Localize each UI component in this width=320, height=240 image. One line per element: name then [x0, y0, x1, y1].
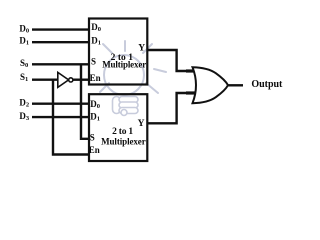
wire S0	[32, 63, 89, 65]
svg-text:S0: S0	[20, 58, 28, 69]
svg-text:S1: S1	[20, 72, 28, 83]
watermark lightbulb	[100, 41, 166, 116]
wire D1	[32, 41, 89, 43]
inverter on S1	[58, 72, 73, 87]
wire S1 branch to bottom En	[53, 80, 89, 155]
svg-text:S: S	[90, 133, 95, 143]
svg-text:Y: Y	[138, 119, 145, 129]
wire D0	[32, 28, 89, 30]
wire S1 to inverter	[32, 78, 58, 80]
wire inverter output to top En	[73, 78, 89, 80]
svg-text:D1: D1	[90, 111, 100, 122]
svg-text:S: S	[91, 56, 96, 66]
wire Y U1 to OR input A	[148, 50, 187, 71]
wire OR output	[228, 84, 243, 86]
svg-text:En: En	[90, 73, 101, 83]
svg-text:D0: D0	[19, 24, 29, 35]
svg-text:D0: D0	[91, 22, 101, 33]
svg-text:Multiplexer: Multiplexer	[102, 60, 146, 70]
svg-text:D1: D1	[19, 36, 29, 47]
multiplexer U2 (bottom 2-to-1)	[89, 94, 147, 161]
svg-text:Output: Output	[251, 79, 283, 90]
svg-text:D3: D3	[19, 111, 30, 122]
multiplexer U1 (top 2-to-1)	[89, 19, 147, 85]
svg-text:En: En	[89, 145, 100, 155]
svg-text:D2: D2	[19, 98, 29, 109]
wire D2	[32, 102, 89, 104]
svg-text:2 to 1: 2 to 1	[112, 127, 133, 137]
svg-text:Y: Y	[138, 44, 145, 54]
svg-text:D0: D0	[90, 99, 100, 110]
or-gate G1	[193, 67, 229, 103]
svg-text:D1: D1	[91, 35, 101, 46]
wire S0 branch to bottom S	[81, 64, 89, 139]
wire D3	[32, 116, 89, 118]
svg-text:Multiplexer: Multiplexer	[101, 136, 146, 146]
wire Y U2 to OR input B	[148, 93, 187, 123]
